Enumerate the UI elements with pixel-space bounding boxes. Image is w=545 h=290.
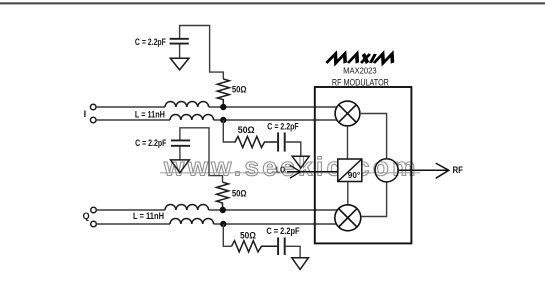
svg-text:50Ω: 50Ω <box>232 189 247 199</box>
ground G3 <box>171 160 190 173</box>
svg-text:C = 2.2pF: C = 2.2pF <box>135 37 166 47</box>
node junction I+ <box>220 104 226 110</box>
svg-text:Q: Q <box>83 211 90 221</box>
inductor L2 11nH on I- <box>170 115 214 120</box>
wire I- junction down <box>223 120 236 142</box>
wire C1 top to R1 <box>180 26 224 80</box>
MAXIM logo <box>326 54 396 63</box>
svg-text:C = 2.2pF: C = 2.2pF <box>267 122 299 132</box>
svg-text:50Ω: 50Ω <box>238 125 255 135</box>
svg-text:MAX2023: MAX2023 <box>343 65 377 75</box>
LO input arrow <box>287 165 338 178</box>
RF output arrow <box>398 163 449 178</box>
wire M1 to phase shifter <box>347 126 349 159</box>
svg-text:50Ω: 50Ω <box>240 230 256 240</box>
resistor R4 50 ohm horizontal <box>232 241 278 252</box>
node junction I- <box>220 117 226 123</box>
capacitor C1 2.2pF <box>170 39 189 44</box>
ground G4 <box>292 258 309 270</box>
wire C2 to ground <box>286 142 301 156</box>
phase shifter 90 deg box <box>338 159 362 182</box>
wire C4 to ground <box>286 246 301 257</box>
wire C1 bottom stub <box>179 44 181 58</box>
summer S1 <box>375 159 398 182</box>
capacitor C4 2.2pF series <box>278 237 285 255</box>
mixer M1 (I) <box>335 101 360 126</box>
svg-text:L = 11nH: L = 11nH <box>133 211 164 221</box>
terminal I- <box>90 117 96 123</box>
ground G1 <box>170 58 189 70</box>
svg-text:90°: 90° <box>348 171 361 180</box>
terminal I+ <box>90 104 96 110</box>
svg-text:50Ω: 50Ω <box>232 85 247 95</box>
resistor R3 50 ohm vertical <box>217 182 229 210</box>
mixer M2 (Q) <box>335 205 361 231</box>
watermark www.seekic.com <box>160 152 420 182</box>
inductor L3 11nH on Q+ <box>165 205 209 210</box>
wire I- line <box>96 119 337 121</box>
terminal Q- <box>91 221 97 227</box>
svg-text:RF MODULATOR: RF MODULATOR <box>332 77 389 87</box>
svg-text:RF: RF <box>453 165 464 175</box>
ground G2 <box>292 156 309 168</box>
wire Q- line <box>97 223 337 225</box>
wire C3 top to R3 <box>180 128 223 182</box>
wire C3 bottom stub <box>179 147 181 160</box>
capacitor C2 2.2pF series <box>278 132 285 151</box>
wire Q- junction down <box>223 224 231 246</box>
resistor R2 50 ohm horizontal <box>235 136 277 147</box>
node junction Q- <box>220 221 226 227</box>
wire M1 out to summer <box>360 114 387 159</box>
svg-text:L = 11nH: L = 11nH <box>135 109 165 119</box>
terminal Q+ <box>91 207 97 213</box>
IC box U1 MAX2023 <box>315 87 412 243</box>
capacitor C3 2.2pF <box>171 140 190 145</box>
wire I+ line <box>96 106 337 108</box>
svg-text:C = 2.2pF: C = 2.2pF <box>135 138 167 148</box>
inductor L1 11nH on I+ <box>165 102 209 107</box>
top separator line (frame) <box>0 2 545 4</box>
svg-text:I: I <box>84 109 87 119</box>
inductor L4 11nH on Q- <box>170 219 214 224</box>
wire M2 out to summer <box>361 182 387 217</box>
wire phase shifter to M2 <box>347 182 349 205</box>
svg-text:C = 2.2pF: C = 2.2pF <box>266 226 300 236</box>
node junction Q+ <box>220 207 226 213</box>
svg-text:LO: LO <box>276 166 285 175</box>
wire Q+ line <box>97 209 338 211</box>
resistor R1 50 ohm vertical <box>217 79 229 106</box>
